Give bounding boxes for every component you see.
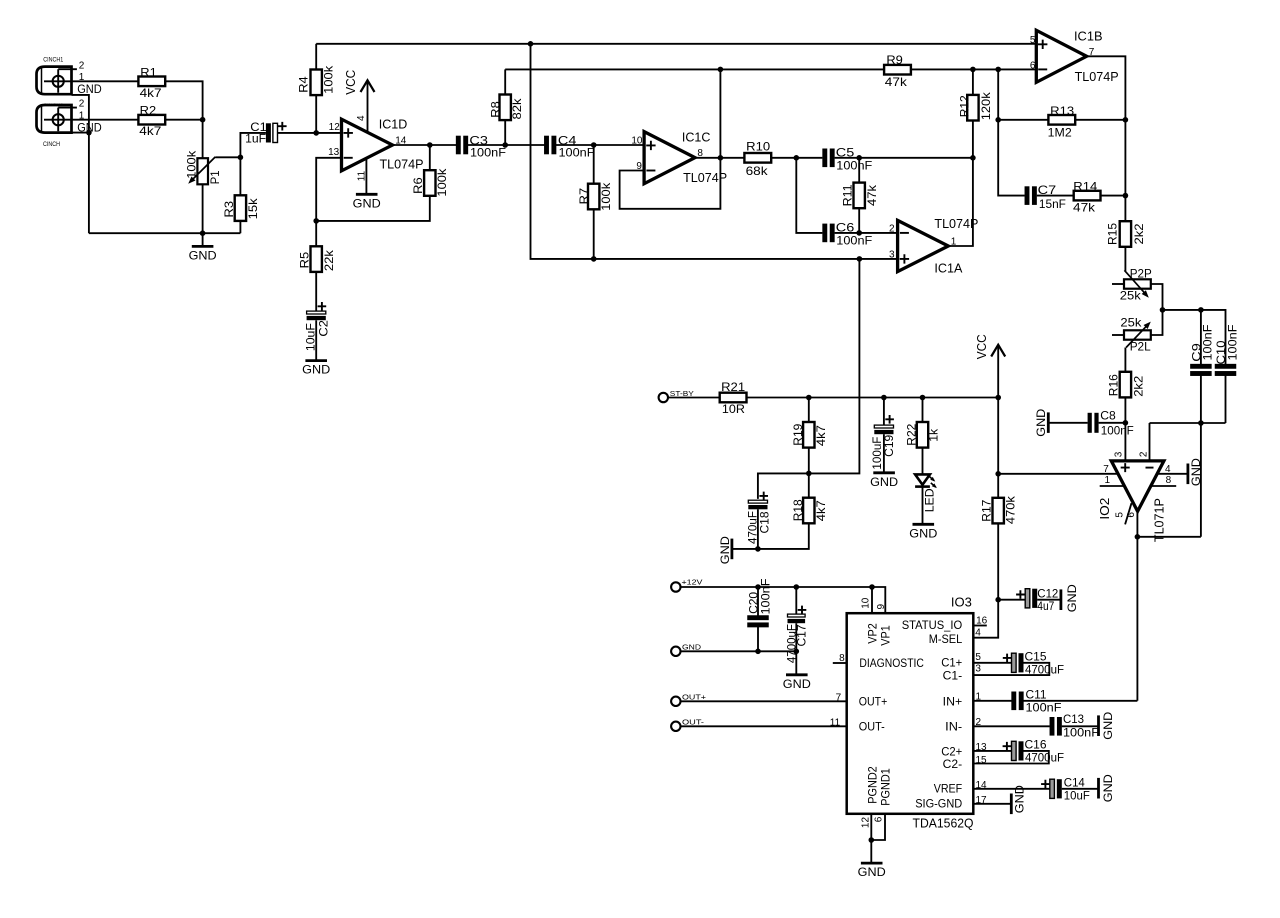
junction C9 bottom	[1198, 420, 1204, 426]
svg-text:C1-: C1-	[943, 671, 963, 683]
wire P2P right to junction	[1151, 284, 1163, 310]
svg-text:IN+: IN+	[943, 697, 963, 709]
wire C8 to node	[1099, 422, 1126, 424]
svg-text:IO3: IO3	[951, 596, 972, 610]
svg-text:4k7: 4k7	[814, 425, 828, 446]
svg-text:2: 2	[889, 223, 895, 234]
svg-text:C15: C15	[1025, 650, 1047, 664]
wire C20 bottom stub	[757, 626, 759, 651]
svg-text:47k: 47k	[865, 184, 879, 206]
svg-text:3: 3	[889, 249, 895, 260]
wire C14 to ground	[1062, 788, 1098, 790]
svg-text:2: 2	[79, 60, 85, 71]
svg-text:OUT-: OUT-	[682, 718, 705, 727]
wire C16 to pin 15 loop	[973, 751, 1049, 764]
junction R14 right on output line	[1123, 193, 1129, 199]
svg-text:DIAGNOSTIC: DIAGNOSTIC	[859, 658, 924, 670]
svg-text:P2L: P2L	[1130, 340, 1151, 354]
wire pin 17 to ground	[973, 803, 1011, 805]
svg-text:STATUS_IO: STATUS_IO	[902, 620, 963, 632]
resistor R19	[791, 422, 828, 448]
svg-text:GND: GND	[1065, 584, 1079, 612]
wire IC1D pin 13 feedback	[316, 158, 341, 221]
svg-text:R10: R10	[746, 139, 770, 153]
connector CINCH2	[37, 99, 102, 148]
junction R6 top	[427, 142, 433, 148]
wire to IO2 pin 7	[998, 473, 1118, 475]
svg-text:47k: 47k	[1073, 201, 1096, 215]
svg-text:OUT+: OUT+	[682, 693, 706, 702]
ground symbol pin 17	[1011, 785, 1026, 814]
ground symbol left of C8	[1034, 408, 1048, 436]
junction R12 bottom / IC1A out	[970, 155, 976, 161]
svg-text:68k: 68k	[746, 164, 769, 178]
wire R4 top to top rail	[315, 44, 317, 70]
svg-text:TL074P: TL074P	[380, 157, 424, 171]
svg-text:GND: GND	[1189, 458, 1203, 486]
svg-text:C8: C8	[1100, 408, 1116, 422]
svg-text:TL074P: TL074P	[1075, 70, 1119, 84]
svg-text:GND: GND	[353, 196, 381, 210]
wire R8 top to second rail	[504, 69, 506, 94]
wire ground rail	[89, 232, 241, 234]
junction P2 node	[1160, 307, 1166, 313]
svg-text:2k2: 2k2	[1131, 375, 1145, 396]
svg-text:GND: GND	[1101, 774, 1115, 802]
wire pin 9 jog	[872, 587, 885, 613]
trimmer P2L	[1120, 316, 1152, 354]
junction C20 bottom	[755, 649, 761, 655]
wire P1 bottom to ground rail	[202, 184, 204, 233]
junction pins 10/9	[869, 584, 875, 590]
svg-text:4k7: 4k7	[140, 86, 162, 100]
wire GND rail	[681, 650, 797, 652]
svg-text:15k: 15k	[246, 197, 260, 219]
junction top rail	[528, 41, 534, 47]
svg-text:TDA1562Q: TDA1562Q	[913, 817, 974, 831]
wire +12V rail	[681, 586, 873, 588]
junction R13 right on output line	[1123, 117, 1129, 123]
svg-text:R5: R5	[297, 252, 311, 269]
wire IC1C output to R10	[695, 157, 745, 159]
svg-text:R16: R16	[1107, 374, 1121, 396]
svg-text:C2: C2	[316, 320, 330, 337]
capacitor C9	[1189, 325, 1214, 376]
wire down to C6	[796, 158, 822, 233]
wire P2L wiper down to R16	[1124, 348, 1126, 373]
capacitor C7	[1025, 183, 1066, 211]
junction pin12/6	[869, 837, 875, 843]
svg-text:R22: R22	[904, 423, 918, 445]
svg-text:R4: R4	[296, 76, 310, 93]
wire IC1B output down right side	[1087, 56, 1126, 221]
wire junction down to P1	[202, 120, 204, 159]
IC IO3 TDA1562Q box	[847, 596, 974, 831]
wire C1 to IC1D pin 12	[277, 132, 341, 134]
wire IO2 pin 1 stub	[1100, 485, 1125, 487]
junction R7 top	[591, 142, 597, 148]
svg-text:P2P: P2P	[1130, 267, 1152, 281]
wire C6 right to IC1A pin 2	[835, 232, 898, 234]
wire C11 to IO2 output line	[1024, 700, 1138, 702]
svg-text:C11: C11	[1026, 687, 1047, 701]
resistor R11	[841, 183, 879, 209]
ground symbol IO2 pin 4	[1188, 458, 1203, 486]
capacitor C17	[785, 606, 809, 664]
wire R2 right to junction	[165, 119, 203, 121]
junction R19/R18	[806, 471, 812, 477]
svg-text:GND: GND	[682, 643, 701, 652]
svg-text:13: 13	[328, 147, 340, 158]
svg-text:R15: R15	[1106, 223, 1120, 245]
wire C5 right to R12 junction	[835, 157, 973, 159]
wire second rail right of R9	[910, 68, 1037, 70]
svg-text:4: 4	[975, 628, 981, 639]
power VCC arrow IC1D	[361, 80, 375, 92]
junction R7 bottom	[591, 256, 597, 262]
svg-text:5: 5	[1114, 512, 1125, 518]
resistor R6	[411, 168, 449, 197]
junction R8 bottom	[502, 142, 508, 148]
connector CINCH1	[37, 58, 102, 96]
wire CINCH2 pin1 to R2	[72, 119, 139, 121]
svg-text:R11: R11	[841, 184, 855, 206]
svg-text:GND: GND	[783, 677, 811, 691]
wire R8 bottom stub	[504, 120, 506, 145]
svg-text:R12: R12	[958, 95, 972, 117]
wire C17 top stub	[795, 587, 797, 614]
ground symbol right of C14	[1099, 774, 1116, 802]
junction IC1C output on feedback	[718, 155, 724, 161]
svg-text:6: 6	[1030, 61, 1036, 72]
svg-text:R2: R2	[140, 104, 157, 118]
svg-text:GND: GND	[909, 526, 937, 540]
wire C12 node to C12	[998, 599, 1025, 601]
svg-text:10R: 10R	[722, 402, 745, 416]
svg-text:7: 7	[1103, 464, 1109, 475]
svg-text:IC1D: IC1D	[379, 118, 408, 132]
capacitor C6	[822, 220, 872, 247]
resistor R8	[489, 95, 524, 121]
wire feedback row to IO2 pin2	[1150, 422, 1226, 424]
junction VCC line stby	[995, 395, 1001, 401]
svg-text:P1: P1	[208, 170, 222, 184]
wire VCC to IC1D pin 4	[367, 80, 369, 133]
svg-text:VP2: VP2	[867, 623, 879, 644]
wire x530 from top rail to IC1A pin3 rail	[531, 44, 898, 259]
svg-text:25k: 25k	[1120, 289, 1142, 303]
resistor R22	[904, 422, 940, 448]
wire R13 branch vertical	[998, 69, 1024, 195]
resistor R3	[222, 195, 260, 221]
junction R1/R2	[200, 117, 206, 123]
junction CINCH GND	[86, 130, 92, 136]
resistor R16	[1107, 372, 1146, 398]
trimmer P2P	[1120, 267, 1152, 303]
svg-text:120k: 120k	[979, 91, 993, 120]
wire pin 5 to C15	[973, 662, 1011, 664]
junction C9 top	[1198, 307, 1204, 313]
junction ground rail	[200, 230, 206, 236]
wire CINCH1 pin1 to R1	[72, 80, 139, 82]
svg-text:C18: C18	[758, 511, 772, 533]
resistor R12	[958, 91, 994, 120]
wire R6 top stub	[429, 145, 431, 170]
wire R13 right stub	[1075, 119, 1125, 121]
svg-text:1: 1	[1105, 475, 1111, 486]
svg-text:9: 9	[876, 603, 887, 609]
svg-text:C1+: C1+	[941, 658, 962, 670]
wire feedback node down to R5	[315, 221, 317, 246]
wire C15 to pin 3 loop	[973, 663, 1049, 675]
svg-text:R13: R13	[1050, 104, 1074, 118]
svg-text:M-SEL: M-SEL	[929, 634, 963, 646]
svg-text:GND: GND	[718, 536, 732, 564]
svg-text:2: 2	[79, 99, 85, 110]
svg-text:11: 11	[830, 717, 841, 728]
wire C19 top stub	[883, 398, 885, 426]
svg-text:LED: LED	[923, 488, 937, 512]
svg-text:C14: C14	[1064, 775, 1085, 789]
wire C19 bottom to ground	[883, 434, 885, 472]
svg-text:PGND1: PGND1	[881, 768, 893, 806]
svg-text:R3: R3	[222, 201, 236, 218]
ground symbol under C2	[305, 359, 327, 362]
svg-text:C2+: C2+	[941, 746, 962, 758]
wire IC1D output	[393, 144, 457, 146]
connector OUT-	[671, 718, 705, 731]
svg-text:VCC: VCC	[344, 70, 358, 95]
junction C19 top	[881, 395, 887, 401]
wire pin 2 to C13	[973, 725, 1049, 727]
junction R19 top	[806, 395, 812, 401]
wire OUT+ to pin 7	[681, 700, 847, 702]
wire R22 to LED	[922, 448, 924, 475]
svg-text:100nF: 100nF	[1225, 325, 1239, 361]
wire R5 to C2	[315, 272, 317, 311]
svg-text:2k2: 2k2	[1132, 223, 1146, 244]
svg-text:GND: GND	[1101, 711, 1115, 739]
connector GND input	[671, 643, 701, 657]
wire C9 top stub	[1200, 310, 1202, 365]
svg-text:TL074P: TL074P	[934, 217, 978, 231]
svg-text:3: 3	[975, 664, 981, 675]
wire R18 top stub	[808, 473, 810, 498]
wire R14 right stub	[1101, 195, 1126, 197]
wire C3 to C4	[468, 144, 545, 146]
svg-text:100nF: 100nF	[758, 579, 772, 615]
svg-text:100nF: 100nF	[836, 158, 872, 172]
svg-text:5: 5	[1030, 35, 1036, 46]
capacitor C1	[245, 120, 287, 146]
diode LED1	[915, 474, 938, 512]
wire R19 bottom stub	[808, 448, 810, 474]
ground symbol under C17	[786, 673, 808, 676]
ground symbol under C19	[873, 471, 895, 474]
wire pin 13 to C16	[973, 750, 1011, 752]
wire C17 bottom stub	[795, 623, 797, 674]
wire R10 to C5	[771, 157, 823, 159]
svg-text:C16: C16	[1025, 738, 1047, 752]
capacitor C14	[1041, 775, 1090, 802]
wire R7 top stub	[593, 145, 595, 184]
ground symbol left of C18	[718, 536, 732, 564]
svg-text:470k: 470k	[1003, 495, 1017, 524]
wire R4 bottom to junction	[315, 95, 317, 133]
wire second rail left of R9	[505, 68, 884, 70]
resistor R1	[138, 66, 165, 100]
wire LED to ground	[922, 487, 924, 524]
svg-text:12: 12	[860, 817, 871, 829]
wire C12 to ground	[1037, 599, 1060, 601]
wire pin 14 to C14	[973, 788, 1050, 790]
junction IO2 pin7 branch	[995, 471, 1001, 477]
wire C18 bottom stub	[757, 509, 759, 549]
svg-text:100k: 100k	[185, 150, 199, 179]
svg-text:10: 10	[860, 597, 871, 609]
svg-text:5: 5	[975, 652, 981, 663]
resistor R2	[138, 104, 165, 139]
junction R12 top rail2	[970, 67, 976, 73]
junction R4 bottom / pin12	[313, 130, 319, 136]
wire pins 12/6 to ground	[870, 814, 872, 863]
svg-text:47k: 47k	[885, 75, 908, 89]
svg-text:25k: 25k	[1120, 316, 1142, 330]
svg-text:1k: 1k	[927, 428, 941, 442]
wire P2P left stub	[1112, 283, 1124, 285]
svg-text:100k: 100k	[321, 65, 335, 94]
wire R11 stubs	[858, 158, 860, 183]
svg-text:4k7: 4k7	[139, 124, 161, 138]
wire IC1D pin 11 to ground	[365, 157, 367, 194]
op-amp IC1B	[1036, 29, 1118, 84]
svg-text:15nF: 15nF	[1039, 197, 1066, 211]
svg-text:82k: 82k	[510, 97, 524, 119]
svg-text:100nF: 100nF	[470, 146, 506, 160]
svg-text:R18: R18	[791, 499, 805, 521]
wire IO2 output to feedback node	[1137, 536, 1201, 538]
resistor R13	[1048, 104, 1076, 140]
capacitor C8	[1088, 408, 1134, 437]
svg-text:+12V: +12V	[682, 578, 703, 587]
svg-text:2: 2	[1139, 451, 1150, 457]
ground symbol under LED	[913, 523, 935, 526]
wire R7 bottom stub	[593, 209, 595, 259]
resistor R15	[1106, 221, 1146, 247]
power VCC arrow right	[991, 345, 1005, 357]
wire feedback rail to R6 bottom	[316, 196, 430, 221]
wire C10 bottom	[1225, 375, 1227, 423]
junction C8 node	[1123, 420, 1129, 426]
svg-text:GND: GND	[189, 249, 217, 263]
wire P2 node to C9 C10	[1163, 310, 1226, 365]
wire R21 to VCC line	[747, 397, 999, 399]
op-amp IO2	[1098, 461, 1167, 542]
junction R13 left	[995, 117, 1001, 123]
svg-text:R7: R7	[577, 188, 591, 205]
svg-text:GND: GND	[858, 865, 886, 879]
wire IO2 pin 8 stub	[1151, 485, 1176, 487]
svg-text:R14: R14	[1073, 180, 1097, 194]
op-amp IC1A	[898, 217, 979, 275]
ground symbol right of C13	[1099, 711, 1116, 739]
svg-text:1M2: 1M2	[1048, 126, 1072, 140]
wire R15 to P2P wiper	[1124, 247, 1126, 271]
svg-text:4700uF: 4700uF	[1025, 751, 1064, 765]
wire R22 top stub	[922, 398, 924, 423]
svg-text:3: 3	[1114, 451, 1125, 457]
ground symbol right of C12	[1061, 584, 1079, 612]
connector ST-BY	[659, 389, 694, 402]
capacitor C20	[747, 579, 773, 628]
svg-text:TL071P: TL071P	[1152, 498, 1166, 542]
wire C20 top stub	[757, 587, 759, 617]
wire CINCH1 GND down	[72, 95, 89, 233]
wire R12 top stub	[972, 69, 974, 95]
svg-text:4k7: 4k7	[814, 500, 828, 521]
junction R13 branch on pin6 wire	[995, 67, 1001, 73]
op-amp IC1D	[342, 118, 424, 172]
capacitor C10	[1214, 325, 1239, 376]
resistor R7	[577, 182, 613, 211]
svg-text:7: 7	[836, 692, 842, 703]
svg-text:100nF: 100nF	[1063, 726, 1099, 740]
wire IC1C pin 9 feedback loop	[620, 69, 721, 208]
op-amp IC1C	[644, 130, 727, 185]
svg-text:R19: R19	[791, 423, 805, 445]
junction R11 top	[856, 155, 862, 161]
wire IO2 pin2 stub	[1149, 423, 1151, 461]
junction IO2 output	[1135, 534, 1141, 540]
resistor R21	[720, 380, 747, 416]
wire R3 bottom to ground rail	[239, 221, 241, 233]
svg-text:VCC: VCC	[975, 334, 989, 359]
junction C17 bottom	[794, 649, 800, 655]
wire VCC down to R17	[997, 345, 999, 498]
svg-text:R17: R17	[980, 499, 994, 521]
wire IO2 output down and feedback	[1136, 511, 1138, 701]
resistor R5	[297, 246, 336, 272]
wire C9 bottom	[1200, 375, 1202, 537]
svg-text:100nF: 100nF	[559, 146, 595, 160]
svg-text:CINCH: CINCH	[43, 142, 60, 148]
resistor R17	[980, 495, 1018, 524]
wire pin 10 stub	[871, 587, 873, 613]
wire C8 ground side	[1048, 422, 1087, 424]
svg-text:6: 6	[874, 816, 885, 822]
svg-text:100nF: 100nF	[1101, 424, 1134, 438]
wire C2 to ground	[315, 320, 317, 360]
svg-text:PGND2: PGND2	[867, 766, 879, 804]
capacitor C11	[1011, 687, 1061, 714]
svg-text:12: 12	[329, 122, 341, 133]
wire pin 1 to C11	[973, 700, 1011, 702]
resistor R14	[1073, 180, 1101, 215]
capacitor C4	[544, 134, 594, 160]
svg-text:R9: R9	[886, 53, 903, 67]
svg-text:100nF: 100nF	[836, 233, 872, 247]
svg-text:VREF: VREF	[934, 784, 963, 796]
capacitor C19	[870, 415, 896, 470]
svg-text:100k: 100k	[435, 168, 449, 197]
junction C20 top	[755, 584, 761, 590]
junction node A	[238, 155, 244, 161]
wire R16 down to C8 node and IO2 pin3	[1124, 397, 1126, 461]
svg-text:OUT+: OUT+	[859, 697, 888, 709]
junction R11 bottom	[856, 230, 862, 236]
wire C13 to ground	[1062, 725, 1098, 727]
wire R1 right to junction	[165, 81, 203, 119]
